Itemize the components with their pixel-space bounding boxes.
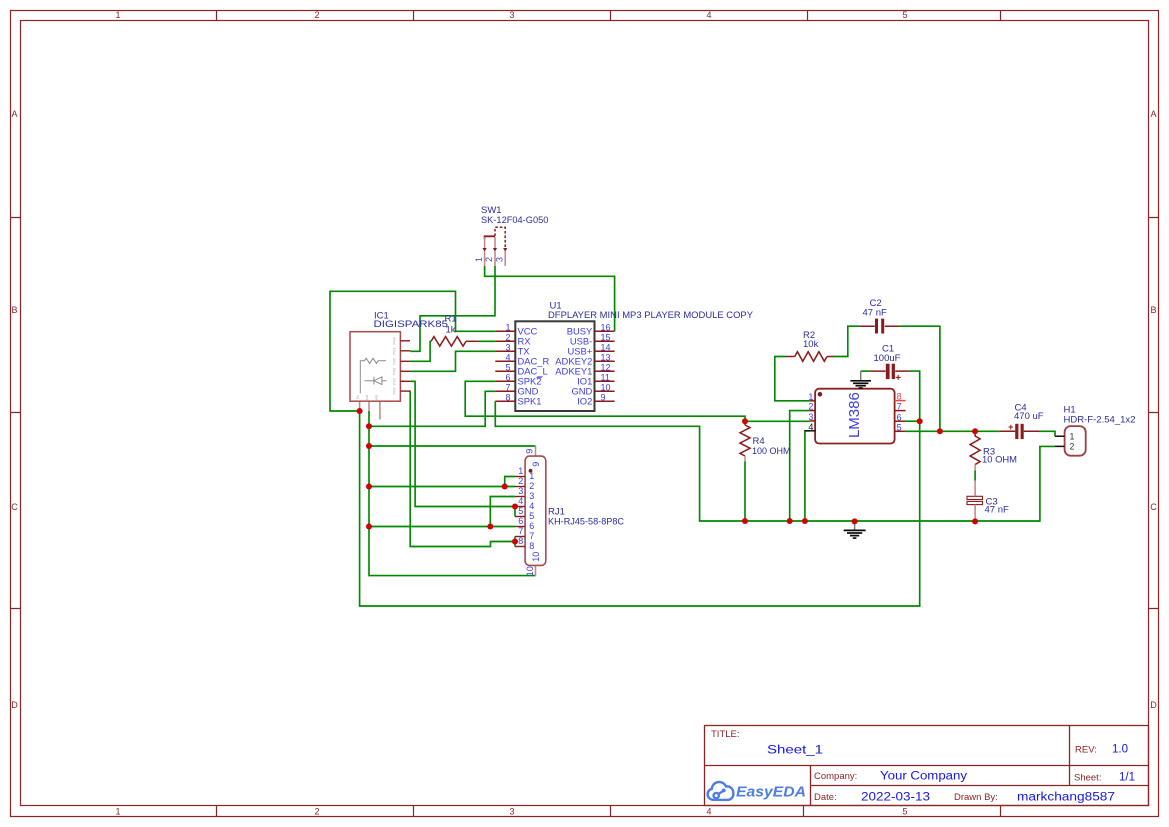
svg-text:P#0: P#0 <box>392 367 397 375</box>
svg-text:13: 13 <box>601 352 611 362</box>
svg-text:1: 1 <box>529 471 534 481</box>
svg-text:6: 6 <box>505 372 510 382</box>
svg-text:3: 3 <box>529 491 534 501</box>
svg-text:P#3: P#3 <box>392 387 397 395</box>
svg-text:+: + <box>1008 422 1014 433</box>
svg-text:4: 4 <box>808 422 813 432</box>
svg-text:Sheet_1: Sheet_1 <box>767 745 823 757</box>
node GND column / U1 GND <box>366 423 372 429</box>
wire U1 SPK1 pin8 to ground rail and H1 pin2 <box>495 401 1055 521</box>
svg-text:1/1: 1/1 <box>1119 772 1135 784</box>
capacitor C1 leads <box>870 370 910 372</box>
wire R2 right to C2 left <box>833 326 860 356</box>
svg-text:4: 4 <box>706 807 711 817</box>
svg-text:C: C <box>1150 502 1157 512</box>
svg-text:1: 1 <box>1070 431 1075 441</box>
svg-text:EasyEDA: EasyEDA <box>736 784 806 801</box>
connector RJ1 body <box>525 456 546 565</box>
node LM386 pin2 rail <box>787 518 793 524</box>
svg-text:2: 2 <box>518 476 523 486</box>
connector H1 body <box>1065 426 1086 456</box>
svg-text:2: 2 <box>314 10 319 20</box>
U1 left pins 1-8 <box>495 331 614 401</box>
svg-text:100 OHM: 100 OHM <box>752 446 791 457</box>
svg-text:6: 6 <box>897 412 902 422</box>
frame top ruler ticks <box>217 11 1001 21</box>
op-amp U2 LM386 body <box>815 389 895 444</box>
svg-text:5: 5 <box>902 807 907 817</box>
capacitor C2 leads <box>860 325 899 327</box>
svg-text:5: 5 <box>518 506 523 516</box>
svg-text:vin: vin <box>374 395 379 400</box>
svg-text:markchang8587: markchang8587 <box>1017 792 1115 804</box>
svg-text:4: 4 <box>529 501 534 511</box>
svg-text:47 nF: 47 nF <box>985 505 1009 516</box>
svg-text:C: C <box>11 502 18 512</box>
LM386 pin 4 black <box>805 430 816 432</box>
capacitor C3 plates <box>967 496 983 499</box>
svg-text:1: 1 <box>518 466 523 476</box>
svg-text:2: 2 <box>1070 442 1075 452</box>
svg-text:Date:: Date: <box>814 792 837 803</box>
wire SW1 pin1 to U1 BUSY pin16 <box>485 266 615 331</box>
IC1 internal symbol resistor and LED gray <box>360 358 386 393</box>
svg-text:3: 3 <box>505 342 510 352</box>
wire GND column to RJ1 pin2 <box>369 486 515 488</box>
svg-text:10: 10 <box>601 382 611 392</box>
EasyEDA logo cloud icon <box>708 782 734 800</box>
svg-text:4: 4 <box>518 496 523 506</box>
svg-text:2: 2 <box>484 257 494 262</box>
svg-text:7: 7 <box>505 382 510 392</box>
svg-text:10: 10 <box>531 552 541 562</box>
svg-text:10 OHM: 10 OHM <box>982 454 1017 465</box>
RJ1 left pins 1-8 <box>515 477 525 547</box>
wire GND column to RJ1 pin9 <box>369 445 536 447</box>
svg-text:8: 8 <box>897 392 902 402</box>
svg-text:8: 8 <box>518 536 523 546</box>
node RJ1 pin4/pin5 <box>512 504 518 510</box>
RJ1 top pin 9 <box>535 446 537 456</box>
svg-text:Drawn By:: Drawn By: <box>954 792 998 803</box>
svg-text:7: 7 <box>518 526 523 536</box>
U1 right pins 16-9 <box>595 330 615 332</box>
wire stub RJ1 pin4 to pin5 <box>514 507 516 517</box>
svg-text:Your Company: Your Company <box>880 771 967 783</box>
title block horizontal divider under TITLE row <box>705 765 1149 767</box>
junction node dots <box>357 408 979 545</box>
wire R3 bottom to C3 top <box>974 471 976 481</box>
RJ1 outside pin numbers 1-8 <box>518 466 523 546</box>
node LM386 pin4 rail <box>802 518 808 524</box>
capacitor C3 leads rosy <box>360 237 976 576</box>
node ground symbol rail <box>852 518 858 524</box>
svg-text:14: 14 <box>601 342 611 352</box>
node GND column / RJ1 pin9 wire <box>366 443 372 449</box>
wire IC1 pin P4 to RJ1 pin7/pin8 <box>410 391 515 546</box>
node RJ1 pin1 branch <box>502 484 508 490</box>
svg-text:100uF: 100uF <box>874 353 901 364</box>
node GND column / RJ1 pin2 wire <box>366 484 372 490</box>
node GND column / RJ1 pin6 wire <box>366 524 372 530</box>
svg-text:4: 4 <box>706 10 711 20</box>
svg-text:9: 9 <box>601 392 606 402</box>
svg-text:B: B <box>1150 305 1156 315</box>
frame right ruler ticks <box>1149 218 1159 609</box>
svg-text:16: 16 <box>601 322 611 332</box>
svg-text:47 nF: 47 nF <box>863 308 887 319</box>
title block logo cell divider <box>810 766 812 806</box>
svg-text:+: + <box>895 373 901 384</box>
U1 pin names right <box>555 326 593 407</box>
svg-text:10: 10 <box>525 566 535 576</box>
svg-text:5: 5 <box>529 511 534 521</box>
RJ1 bottom pin 10 <box>535 565 537 575</box>
resistor R4 zigzag vertical <box>740 425 750 456</box>
wire stub RJ1 pin8 <box>514 542 516 547</box>
svg-text:DFPLAYER MINI MP3 PLAYER MODUL: DFPLAYER MINI MP3 PLAYER MODULE COPY <box>548 310 754 321</box>
IC1 right side pins <box>400 341 410 391</box>
svg-text:1k: 1k <box>446 325 456 336</box>
node R4 bottom rail <box>742 518 748 524</box>
resistor R4 top lead <box>744 421 746 425</box>
svg-text:3: 3 <box>509 10 514 20</box>
switch SW1 pin 3 <box>504 251 506 266</box>
svg-text:LM386: LM386 <box>846 392 863 438</box>
U1 pin numbers right <box>601 322 611 402</box>
wire IC1 pin P1 to R1 left <box>410 341 431 361</box>
svg-text:Company:: Company: <box>814 771 857 782</box>
svg-text:D: D <box>1150 700 1157 710</box>
LM386 pin1 indicator dot <box>818 392 823 397</box>
svg-text:D: D <box>11 700 18 710</box>
svg-text:R1: R1 <box>445 313 457 324</box>
svg-text:11: 11 <box>601 372 610 382</box>
resistor R2 leads <box>786 356 833 358</box>
svg-text:4: 4 <box>505 352 510 362</box>
ground symbol at C1 <box>860 371 862 381</box>
svg-text:5: 5 <box>902 10 907 20</box>
LM386 pin numbers left <box>808 392 813 432</box>
RJ1 pin1 indicator dot <box>529 469 533 473</box>
node R3 top / output <box>972 428 978 434</box>
wire branch RJ1 pin1 to pin2 net <box>505 477 515 487</box>
U1 pin numbers left <box>505 322 510 402</box>
title block outer box <box>705 726 1149 806</box>
switch SW1 pin arrows <box>483 248 487 252</box>
svg-text:2: 2 <box>314 807 319 817</box>
wire C4 right to H1 pin1 <box>1039 431 1055 436</box>
switch SW1 lever solid position 1-2 <box>485 236 495 239</box>
capacitor C1 plates polarized <box>886 364 890 379</box>
svg-text:SK-12F04-G050: SK-12F04-G050 <box>481 215 548 226</box>
wire GND column to RJ1 pin6 <box>369 526 515 528</box>
svg-text:P#5: P#5 <box>392 357 397 365</box>
title block vertical divider REV/Sheet column <box>1069 726 1071 786</box>
svg-text:2: 2 <box>808 402 813 412</box>
node C2 right / output <box>937 428 943 434</box>
wire LM386 pin4 down to ground rail <box>805 431 810 521</box>
title block horizontal divider Company/Date <box>811 785 1149 787</box>
svg-text:DIGISPARK85: DIGISPARK85 <box>374 319 449 330</box>
svg-text:3: 3 <box>808 412 813 422</box>
svg-text:1: 1 <box>115 10 120 20</box>
svg-text:TITLE:: TITLE: <box>711 729 740 740</box>
svg-text:5: 5 <box>897 422 902 432</box>
resistor R1 zigzag <box>431 337 466 347</box>
svg-text:Sheet:: Sheet: <box>1074 773 1101 784</box>
svg-text:2: 2 <box>529 481 534 491</box>
node LM386 pin6 / 5V vertical <box>917 418 923 424</box>
svg-text:7: 7 <box>529 531 534 541</box>
svg-text:3: 3 <box>494 257 504 262</box>
capacitor C4 plates polarized <box>1015 424 1018 439</box>
RJ1 inside pin names 1-8 <box>529 471 534 551</box>
wire SW1 pin2 to IC1 pin P0 <box>410 266 495 351</box>
IC1 internal gray pin labels <box>355 337 397 402</box>
U1 SPK2 overline <box>536 377 542 379</box>
svg-text:2022-03-13: 2022-03-13 <box>861 792 930 804</box>
svg-text:7: 7 <box>897 402 902 412</box>
wire R1 right to U1 RX pin2 <box>479 340 496 342</box>
resistor R4 bottom rosy lead <box>744 456 746 462</box>
capacitor C4 leads <box>1000 430 1039 432</box>
svg-text:A: A <box>11 109 17 119</box>
wire IC1 pin P2 to U1 TX pin3 <box>410 351 495 371</box>
IC1 bottom pin VIN unconnected <box>379 401 381 419</box>
svg-text:10k: 10k <box>803 339 819 350</box>
H1 pin lines black <box>1055 436 1065 446</box>
svg-text:12: 12 <box>601 362 611 372</box>
svg-text:1.0: 1.0 <box>1112 744 1128 756</box>
node C3 bottom rail <box>972 518 978 524</box>
svg-text:3: 3 <box>509 807 514 817</box>
svg-text:8: 8 <box>529 541 534 551</box>
LM386 pin numbers right <box>897 392 902 433</box>
svg-text:15: 15 <box>601 332 611 342</box>
svg-text:2: 2 <box>505 332 510 342</box>
wire LM386 pin2 down to ground rail <box>790 411 810 521</box>
svg-text:P#4: P#4 <box>392 337 397 345</box>
svg-text:1: 1 <box>808 392 813 402</box>
svg-text:P#2: P#2 <box>392 377 397 385</box>
LM386 right pin 8 red <box>895 400 906 402</box>
svg-text:HDR-F-2.54_1x2: HDR-F-2.54_1x2 <box>1064 414 1136 425</box>
resistor R1 right lead <box>466 340 479 342</box>
switch SW1 pin 2 <box>494 237 496 266</box>
svg-text:1: 1 <box>115 807 120 817</box>
wire R2 left to LM386 pin1 <box>775 357 810 401</box>
svg-text:IO2: IO2 <box>577 396 592 407</box>
IC1 DIGISPARK85 body <box>350 332 400 402</box>
wire C2 right down to LM386 pin5 net <box>899 326 940 431</box>
svg-text:P#1: P#1 <box>392 347 397 355</box>
wire 5V rail: IC1 5V pin down, bottom run, up to C1 right lead <box>360 371 920 606</box>
resistor R3 top lead <box>974 431 976 436</box>
svg-text:9: 9 <box>524 449 534 454</box>
svg-text:1: 1 <box>505 322 510 332</box>
svg-text:470 uF: 470 uF <box>1014 411 1044 422</box>
wire GND column from IC1 GND pin down to RJ1 pin10 <box>369 411 536 576</box>
LM386 left pins 1-3 <box>810 401 816 421</box>
node IC1 5V / left loop <box>357 408 363 414</box>
wire U1 GND pin7 to GND column <box>369 391 495 426</box>
svg-text:SPK1: SPK1 <box>518 396 542 407</box>
wire branch RJ1 pin3 to pin6 net <box>490 497 515 527</box>
IC1 bottom pin GND <box>368 401 370 411</box>
resistor R3 zigzag vertical <box>970 436 980 465</box>
frame left ruler ticks <box>11 218 21 609</box>
svg-text:9: 9 <box>531 462 541 467</box>
U1 pin names left <box>518 326 550 407</box>
wire U1 SPK2 pin6 to LM386 pin3 <box>465 381 810 421</box>
LM386 right pins 7,6,5 <box>895 411 906 432</box>
ground symbol at ground rail <box>854 521 856 530</box>
svg-text:6: 6 <box>529 521 534 531</box>
capacitor C2 plates <box>875 319 878 334</box>
svg-text:B: B <box>11 305 17 315</box>
wire VCC loop: U1 VCC pin1 left around IC1 <box>330 291 495 411</box>
svg-text:8: 8 <box>505 392 510 402</box>
svg-text:REV:: REV: <box>1075 745 1097 756</box>
svg-text:6: 6 <box>518 516 523 526</box>
svg-text:gnd: gnd <box>364 395 369 402</box>
switch SW1 lever dashed position to pin3 <box>495 227 505 248</box>
wire stub RJ1 pin7 <box>514 537 516 542</box>
resistor R2 zigzag <box>795 352 827 362</box>
frame bottom ruler ticks <box>217 806 1001 817</box>
svg-text:KH-RJ45-58-8P8C: KH-RJ45-58-8P8C <box>548 517 624 528</box>
svg-text:3: 3 <box>518 486 523 496</box>
wire C1 left lead to ground stem <box>861 370 870 372</box>
switch SW1 pin 1 <box>484 237 486 266</box>
node RJ1 pin7/pin8 <box>512 539 518 545</box>
wire IC1 pin P3 to RJ1 pin4 <box>410 381 515 506</box>
svg-text:5v: 5v <box>355 395 360 399</box>
wire LM386 pin6 to 5V vertical <box>906 420 920 422</box>
wire R4 bottom to ground rail <box>744 462 746 522</box>
svg-text:1: 1 <box>474 257 484 262</box>
svg-text:5: 5 <box>505 362 510 372</box>
node RJ1 pin3 branch <box>487 524 493 530</box>
wire LM386 pin5 output to C4 <box>906 430 1000 432</box>
IC1 bottom pin 5V <box>359 401 361 411</box>
node R4 top <box>742 418 748 424</box>
IC U1 DFPLAYER body <box>515 321 594 411</box>
svg-text:A: A <box>1150 109 1156 119</box>
